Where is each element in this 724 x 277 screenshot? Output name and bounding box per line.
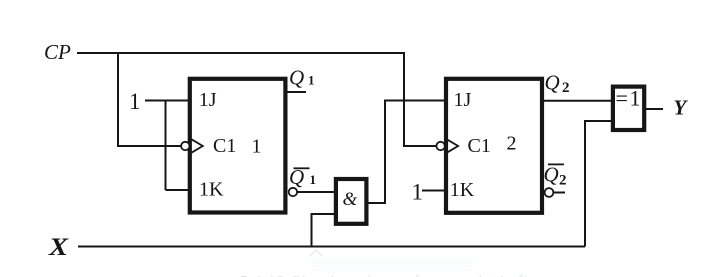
svg-text:1J: 1J: [199, 89, 217, 111]
wire 1 to FF2 1K: [422, 190, 445, 192]
svg-text:Y: Y: [674, 96, 689, 120]
wire 1 to FF1 1J: [145, 100, 189, 102]
wire Q1bar to AND gate: [297, 191, 336, 193]
flip-flop U1 pin label 1J: [199, 89, 217, 111]
svg-text:2: 2: [559, 173, 567, 189]
wire J-K tie vertical: [165, 101, 167, 191]
node 1 input FF1: [129, 89, 141, 114]
node Q1bar label with overbar: [289, 165, 316, 189]
flip-flop U1 pin label 1K: [199, 179, 224, 201]
flip-flop U2 designator 2: [507, 133, 517, 155]
svg-text:1: 1: [310, 172, 317, 187]
wire Q2bar stub: [553, 192, 565, 194]
svg-text:1: 1: [129, 89, 141, 114]
flip-flop U2 clock bubble: [436, 142, 444, 150]
node Y label: [674, 96, 689, 120]
flip-flop U1 Q1bar output bubble: [289, 188, 297, 196]
flip-flop U1 label C1: [213, 135, 236, 157]
svg-text:C1: C1: [468, 135, 491, 157]
svg-text:1K: 1K: [450, 179, 475, 201]
wire CP branch to FF1 clock: [118, 53, 182, 146]
XOR gate G2 label: [616, 86, 641, 111]
wire X horizontal bottom: [78, 246, 585, 248]
svg-text:&: &: [343, 189, 358, 210]
svg-text:CP: CP: [44, 40, 71, 64]
node Q2 label: [545, 71, 570, 97]
faint mark artifact: [310, 250, 322, 256]
wire AND output to FF2 1J: [366, 101, 445, 204]
flip-flop U2 box: [446, 79, 542, 213]
wire to FF1 1K: [166, 189, 190, 191]
wire X branch to XOR gate: [585, 121, 613, 247]
svg-text:2: 2: [507, 133, 517, 155]
svg-text:1: 1: [252, 136, 262, 158]
flip-flop U2 label C1: [468, 135, 491, 157]
svg-text:5.4.13 Circuit and waveform an: 5.4.13 Circuit and waveform analysis fig…: [240, 274, 560, 277]
svg-text:1: 1: [412, 180, 424, 205]
flip-flop U1 clock bubble: [181, 142, 189, 150]
svg-text:Q: Q: [545, 71, 560, 95]
svg-text:X: X: [48, 233, 69, 261]
svg-text:1: 1: [308, 73, 315, 88]
faint blue tint artifact: [312, 259, 472, 271]
wire XOR output: [644, 108, 663, 110]
wire CP horizontal top: [77, 52, 404, 54]
svg-text:Q: Q: [289, 66, 304, 90]
flip-flop U2 pin label 1J: [454, 89, 472, 111]
wire X branch to AND gate: [312, 214, 337, 247]
flip-flop U2 pin label 1K: [450, 179, 475, 201]
flip-flop U1 designator 1: [252, 136, 262, 158]
node Q1 label: [289, 66, 315, 90]
AND gate G1 label: [343, 189, 358, 210]
AND gate G1 box: [336, 179, 367, 224]
node CP label: [44, 40, 71, 64]
flip-flop U1 clock edge wedge: [192, 139, 203, 152]
node X label: [48, 233, 69, 261]
flip-flop U1 box: [190, 79, 286, 213]
svg-text:C1: C1: [213, 135, 236, 157]
svg-text:Q: Q: [544, 163, 559, 187]
svg-text:2: 2: [562, 80, 570, 96]
wire Q1 stub: [287, 91, 306, 93]
flip-flop U2 Q2bar output bubble: [545, 188, 554, 197]
svg-text:1K: 1K: [199, 179, 224, 201]
svg-text:1J: 1J: [454, 89, 472, 111]
flip-flop U2 clock edge wedge: [447, 139, 458, 152]
node Q2bar label with overbar: [544, 163, 567, 189]
wire Q2 to XOR gate: [541, 100, 613, 102]
faint cropped caption: [240, 274, 560, 277]
wire CP branch to FF2 clock: [404, 52, 437, 146]
XOR gate G2 box: [613, 87, 644, 130]
node 1 input FF2: [412, 180, 424, 205]
